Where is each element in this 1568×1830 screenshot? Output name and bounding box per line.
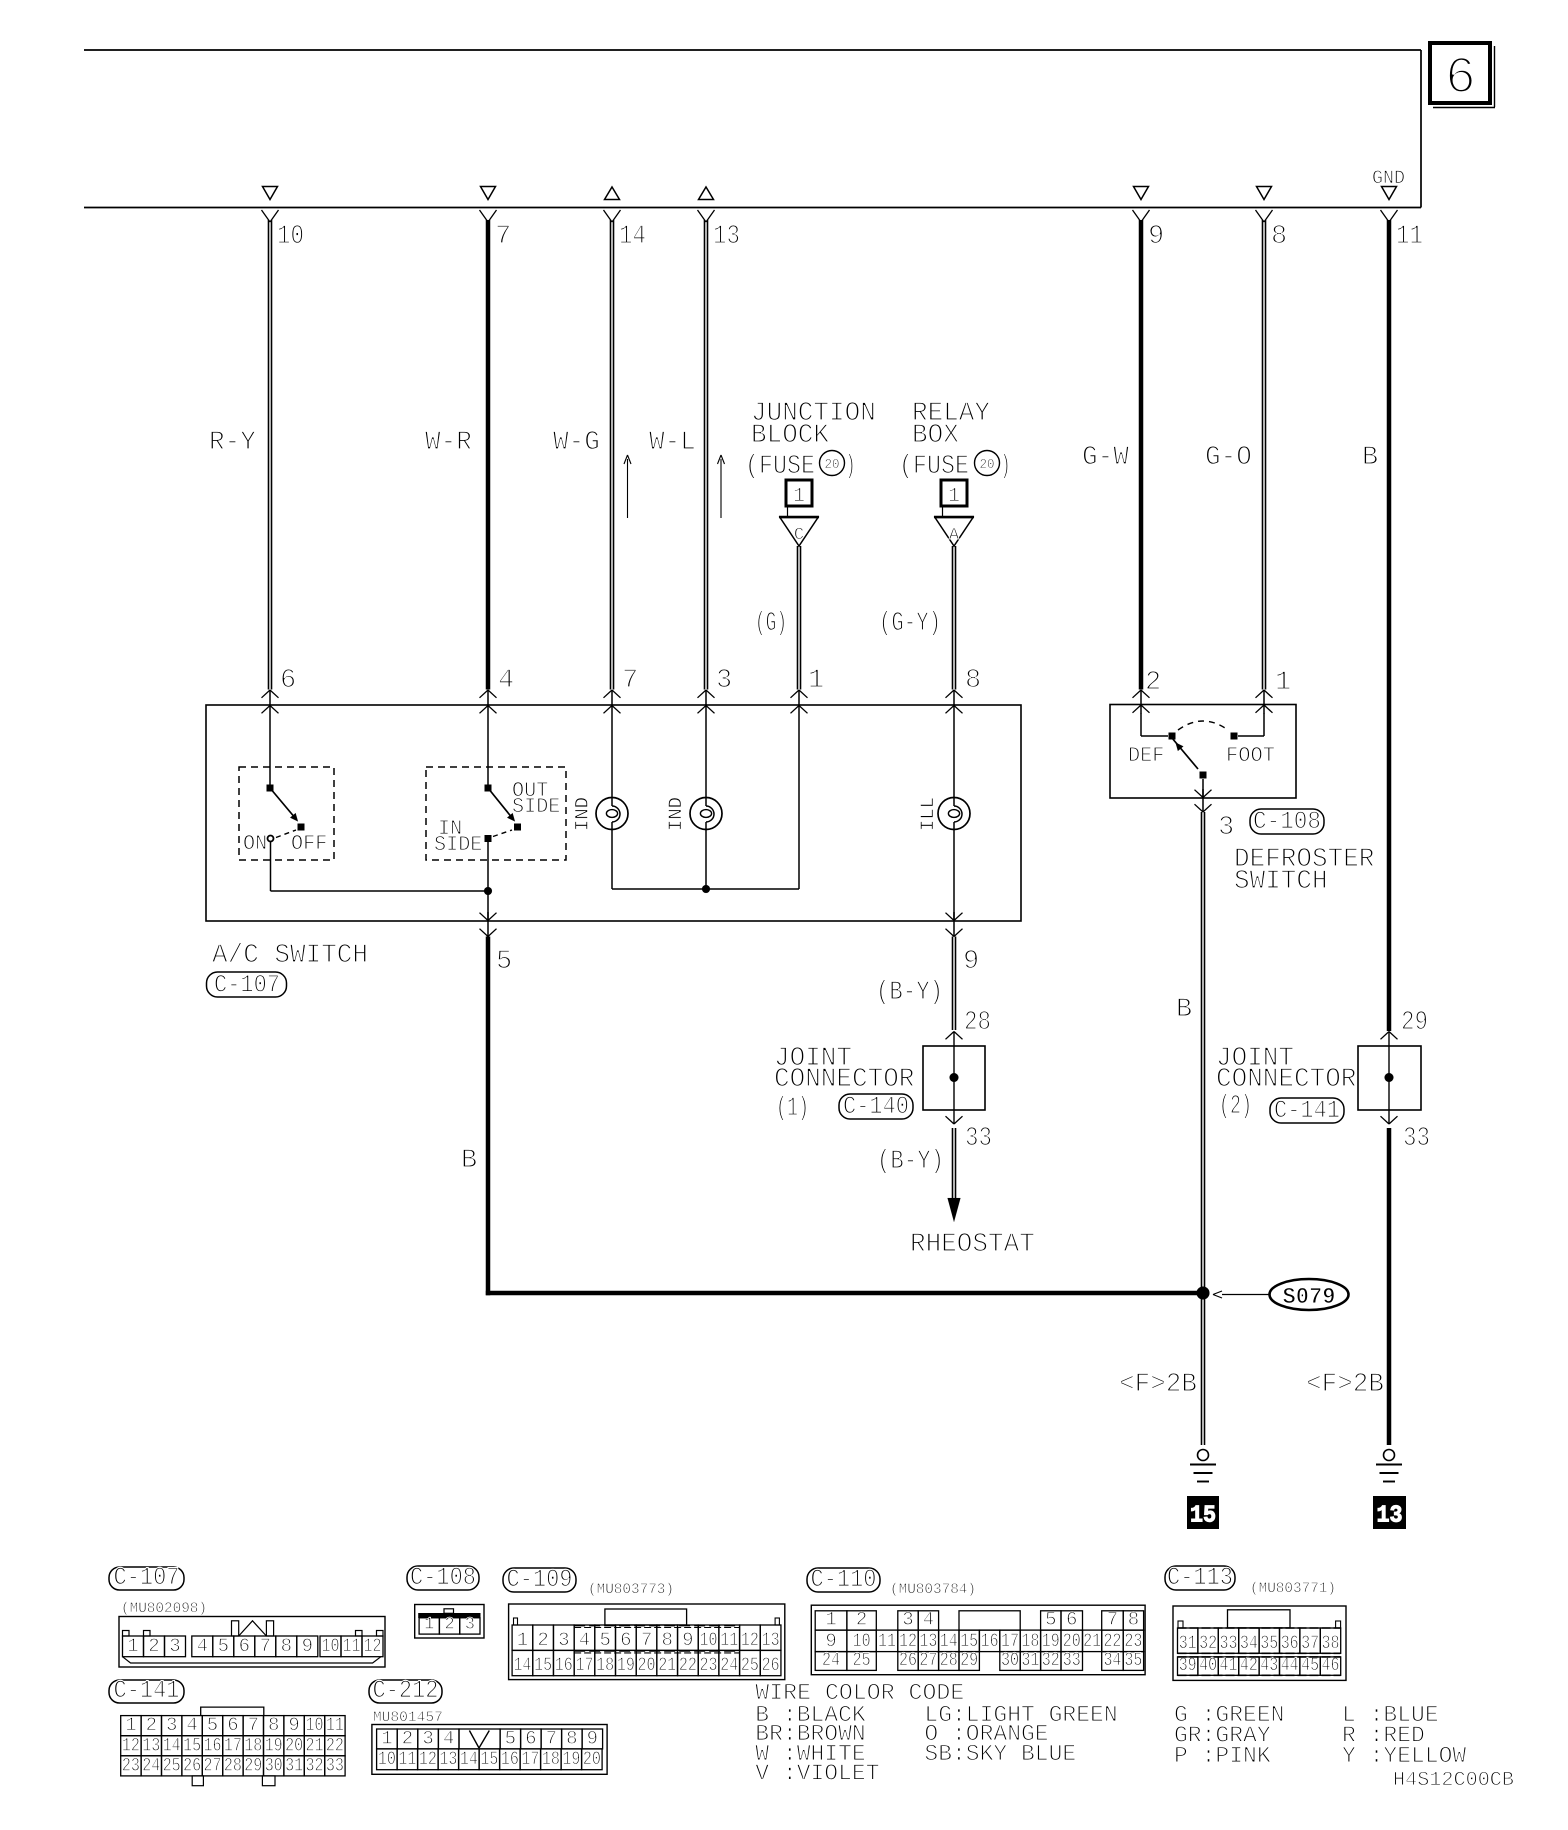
svg-text:MU801457: MU801457 — [373, 1710, 443, 1726]
svg-text:19: 19 — [617, 1654, 635, 1676]
svg-text:9: 9 — [302, 1635, 313, 1657]
svg-text:12: 12 — [122, 1734, 140, 1756]
svg-text:6: 6 — [1066, 1609, 1077, 1631]
svg-text:11: 11 — [398, 1748, 416, 1770]
svg-text:B: B — [1362, 443, 1378, 473]
svg-text:ILL: ILL — [917, 797, 939, 831]
svg-text:24: 24 — [142, 1754, 160, 1776]
svg-text:2: 2 — [856, 1609, 867, 1631]
svg-text:26: 26 — [762, 1654, 780, 1676]
svg-text:15: 15 — [534, 1654, 552, 1676]
svg-text:14: 14 — [163, 1734, 181, 1756]
svg-text:26: 26 — [183, 1754, 201, 1776]
svg-text:IND: IND — [665, 797, 687, 831]
svg-text:14: 14 — [513, 1654, 531, 1676]
svg-text:31: 31 — [285, 1754, 303, 1776]
svg-text:16: 16 — [204, 1734, 222, 1756]
svg-text:1: 1 — [517, 1629, 528, 1651]
svg-text:24: 24 — [822, 1649, 840, 1671]
svg-text:35: 35 — [1124, 1649, 1142, 1671]
svg-text:10: 10 — [322, 1635, 340, 1657]
svg-text:2: 2 — [148, 1635, 159, 1657]
svg-text:(B-Y): (B-Y) — [877, 1147, 944, 1177]
svg-text:GND: GND — [1372, 167, 1405, 189]
svg-text:<F>2B: <F>2B — [1119, 1370, 1197, 1400]
svg-text:10: 10 — [306, 1714, 324, 1736]
svg-text:S079: S079 — [1283, 1284, 1336, 1310]
svg-text:<F>2B: <F>2B — [1306, 1370, 1384, 1400]
svg-text:20: 20 — [825, 458, 840, 473]
svg-text:C-113: C-113 — [1167, 1563, 1233, 1592]
svg-text:32: 32 — [306, 1754, 324, 1776]
svg-text:9: 9 — [1148, 222, 1164, 252]
svg-text:37: 37 — [1301, 1632, 1319, 1654]
svg-text:2: 2 — [402, 1727, 413, 1749]
svg-text:(1): (1) — [776, 1094, 809, 1124]
svg-text:33: 33 — [326, 1754, 344, 1776]
svg-text:6: 6 — [239, 1635, 250, 1657]
svg-text:11: 11 — [343, 1635, 361, 1657]
svg-text:C-107: C-107 — [114, 1563, 180, 1592]
svg-text:25: 25 — [163, 1754, 181, 1776]
svg-text:30: 30 — [1001, 1649, 1019, 1671]
svg-text:26: 26 — [899, 1649, 917, 1671]
svg-text:A/C SWITCH: A/C SWITCH — [212, 941, 368, 971]
svg-text:4: 4 — [498, 666, 514, 696]
svg-text:W-R: W-R — [425, 428, 472, 458]
svg-text:12: 12 — [419, 1748, 437, 1770]
svg-text:SWITCH: SWITCH — [1234, 867, 1328, 897]
svg-text:(MU803771): (MU803771) — [1250, 1581, 1336, 1597]
svg-text:DEF: DEF — [1128, 745, 1164, 768]
svg-text:BLOCK: BLOCK — [751, 421, 830, 451]
svg-text:C-107: C-107 — [214, 971, 280, 1000]
svg-text:36: 36 — [1281, 1632, 1299, 1654]
svg-text:4: 4 — [579, 1629, 590, 1651]
svg-text:24: 24 — [720, 1654, 738, 1676]
svg-text:8: 8 — [268, 1714, 279, 1736]
svg-text:3: 3 — [558, 1629, 569, 1651]
svg-text:15: 15 — [183, 1734, 201, 1756]
svg-text:C-109: C-109 — [507, 1565, 573, 1594]
svg-text:1: 1 — [127, 1635, 138, 1657]
svg-text:17: 17 — [575, 1654, 593, 1676]
svg-text:2: 2 — [146, 1714, 157, 1736]
svg-text:3: 3 — [716, 666, 732, 696]
svg-text:21: 21 — [306, 1734, 324, 1756]
svg-text:G-W: G-W — [1082, 443, 1130, 473]
svg-text:SIDE: SIDE — [434, 834, 482, 857]
svg-text:21: 21 — [658, 1654, 676, 1676]
svg-text:25: 25 — [853, 1649, 871, 1671]
svg-text:2: 2 — [537, 1629, 548, 1651]
svg-text:(2): (2) — [1219, 1092, 1252, 1122]
svg-text:Y :YELLOW: Y :YELLOW — [1342, 1743, 1466, 1769]
svg-text:34: 34 — [1103, 1649, 1121, 1671]
svg-text:V :VIOLET: V :VIOLET — [755, 1761, 879, 1787]
svg-text:17: 17 — [224, 1734, 242, 1756]
svg-text:11: 11 — [878, 1630, 896, 1652]
svg-text:1: 1 — [125, 1714, 136, 1736]
svg-text:18: 18 — [542, 1748, 560, 1770]
svg-text:C-141: C-141 — [114, 1676, 180, 1705]
svg-text:9: 9 — [682, 1629, 693, 1651]
svg-text:1: 1 — [424, 1616, 434, 1635]
svg-text:20: 20 — [285, 1734, 303, 1756]
svg-text:16: 16 — [981, 1630, 999, 1652]
svg-text:6: 6 — [1445, 49, 1476, 108]
svg-text:16: 16 — [501, 1748, 519, 1770]
svg-text:8: 8 — [566, 1727, 577, 1749]
svg-text:8: 8 — [965, 666, 981, 696]
svg-text:8: 8 — [1271, 222, 1287, 252]
svg-text:11: 11 — [326, 1714, 344, 1736]
svg-text:33: 33 — [965, 1124, 992, 1154]
svg-text:G-O: G-O — [1205, 443, 1252, 473]
svg-text:20: 20 — [583, 1748, 601, 1770]
svg-text:8: 8 — [661, 1629, 672, 1651]
svg-text:32: 32 — [1042, 1649, 1060, 1671]
svg-text:18: 18 — [244, 1734, 262, 1756]
svg-text:22: 22 — [326, 1734, 344, 1756]
svg-text:OFF: OFF — [291, 833, 327, 856]
svg-text:15: 15 — [480, 1748, 498, 1770]
svg-text:CONNECTOR: CONNECTOR — [1216, 1065, 1356, 1095]
svg-text:32: 32 — [1199, 1632, 1217, 1654]
svg-text:W-G: W-G — [553, 428, 600, 458]
svg-text:R-Y: R-Y — [209, 428, 256, 458]
svg-text:1: 1 — [381, 1727, 392, 1749]
svg-text:19: 19 — [265, 1734, 283, 1756]
svg-text:B: B — [461, 1146, 477, 1176]
svg-text:29: 29 — [1401, 1008, 1428, 1038]
svg-text:3: 3 — [169, 1635, 180, 1657]
svg-text:10: 10 — [700, 1629, 718, 1651]
svg-text:4: 4 — [923, 1609, 934, 1631]
svg-text:19: 19 — [562, 1748, 580, 1770]
svg-text:(G): (G) — [755, 609, 787, 639]
svg-text:5: 5 — [599, 1629, 610, 1651]
svg-text:10: 10 — [277, 222, 304, 252]
svg-text:A: A — [949, 526, 960, 545]
svg-text:1: 1 — [793, 485, 805, 508]
svg-text:7: 7 — [495, 222, 511, 252]
svg-text:9: 9 — [288, 1714, 299, 1736]
svg-text:28: 28 — [224, 1754, 242, 1776]
svg-text:C: C — [794, 526, 804, 545]
svg-text:14: 14 — [619, 222, 646, 252]
svg-text:(FUSE: (FUSE — [899, 452, 969, 482]
svg-text:C-108: C-108 — [410, 1563, 476, 1592]
svg-text:12: 12 — [741, 1629, 759, 1651]
svg-text:16: 16 — [555, 1654, 573, 1676]
svg-text:3: 3 — [902, 1609, 913, 1631]
svg-text:7: 7 — [622, 666, 638, 696]
svg-text:P :PINK: P :PINK — [1174, 1743, 1271, 1769]
svg-text:1: 1 — [808, 666, 824, 696]
svg-text:13: 13 — [1377, 1503, 1403, 1530]
svg-text:31: 31 — [1021, 1649, 1039, 1671]
svg-text:7: 7 — [248, 1714, 259, 1736]
svg-text:H4S12C00CB: H4S12C00CB — [1393, 1769, 1514, 1792]
svg-text:6: 6 — [620, 1629, 631, 1651]
svg-text:21: 21 — [1083, 1630, 1101, 1652]
svg-text:13: 13 — [762, 1629, 780, 1651]
svg-text:5: 5 — [1045, 1609, 1056, 1631]
svg-text:20: 20 — [980, 458, 995, 473]
svg-text:28: 28 — [964, 1008, 991, 1038]
svg-text:(FUSE: (FUSE — [745, 452, 815, 482]
svg-text:2: 2 — [444, 1616, 454, 1635]
svg-text:4: 4 — [443, 1727, 454, 1749]
svg-text:29: 29 — [960, 1649, 978, 1671]
svg-text:14: 14 — [460, 1748, 478, 1770]
svg-text:5: 5 — [505, 1727, 516, 1749]
svg-text:SB:SKY BLUE: SB:SKY BLUE — [924, 1741, 1076, 1767]
svg-text:13: 13 — [713, 222, 740, 252]
svg-text:11: 11 — [1396, 222, 1423, 252]
svg-text:20: 20 — [638, 1654, 656, 1676]
svg-text:35: 35 — [1260, 1632, 1278, 1654]
svg-text:29: 29 — [244, 1754, 262, 1776]
svg-text:ON: ON — [243, 833, 267, 856]
svg-text:(B-Y): (B-Y) — [876, 978, 943, 1008]
svg-text:4: 4 — [197, 1635, 208, 1657]
svg-text:C-108: C-108 — [1253, 807, 1321, 836]
svg-text:7: 7 — [1107, 1609, 1118, 1631]
svg-text:13: 13 — [439, 1748, 457, 1770]
svg-text:1: 1 — [948, 485, 960, 508]
svg-text:3: 3 — [1218, 813, 1234, 843]
svg-text:(MU803773): (MU803773) — [588, 1582, 674, 1598]
svg-text:5: 5 — [218, 1635, 229, 1657]
svg-text:27: 27 — [204, 1754, 222, 1776]
svg-text:C-140: C-140 — [843, 1092, 909, 1121]
svg-text:1: 1 — [825, 1609, 836, 1631]
svg-text:1: 1 — [1275, 668, 1291, 698]
svg-text:): ) — [846, 452, 856, 482]
svg-text:33: 33 — [1403, 1124, 1430, 1154]
svg-text:10: 10 — [378, 1748, 396, 1770]
svg-text:23: 23 — [700, 1654, 718, 1676]
svg-text:2: 2 — [1145, 668, 1161, 698]
svg-text:12: 12 — [364, 1635, 382, 1657]
svg-text:23: 23 — [122, 1754, 140, 1776]
svg-text:3: 3 — [465, 1616, 475, 1635]
svg-text:7: 7 — [641, 1629, 652, 1651]
svg-text:IND: IND — [572, 797, 594, 831]
svg-text:6: 6 — [280, 666, 296, 696]
svg-text:W-L: W-L — [649, 428, 696, 458]
svg-text:3: 3 — [422, 1727, 433, 1749]
svg-text:8: 8 — [1128, 1609, 1139, 1631]
svg-text:9: 9 — [963, 947, 979, 977]
svg-text:3: 3 — [166, 1714, 177, 1736]
svg-text:5: 5 — [207, 1714, 218, 1736]
svg-text:38: 38 — [1322, 1632, 1340, 1654]
svg-text:C-212: C-212 — [373, 1676, 439, 1705]
svg-text:C-141: C-141 — [1274, 1096, 1340, 1125]
svg-text:13: 13 — [142, 1734, 160, 1756]
svg-text:): ) — [1001, 452, 1011, 482]
svg-text:25: 25 — [741, 1654, 759, 1676]
svg-text:(MU803784): (MU803784) — [890, 1582, 976, 1598]
svg-text:18: 18 — [596, 1654, 614, 1676]
svg-text:34: 34 — [1240, 1632, 1258, 1654]
svg-text:(MU802098): (MU802098) — [121, 1601, 207, 1617]
svg-text:27: 27 — [919, 1649, 937, 1671]
svg-text:CONNECTOR: CONNECTOR — [774, 1065, 914, 1095]
svg-text:4: 4 — [186, 1714, 197, 1736]
svg-text:6: 6 — [525, 1727, 536, 1749]
svg-text:33: 33 — [1220, 1632, 1238, 1654]
svg-text:SIDE: SIDE — [512, 796, 560, 819]
svg-text:BOX: BOX — [912, 421, 959, 451]
svg-text:30: 30 — [265, 1754, 283, 1776]
svg-text:7: 7 — [260, 1635, 271, 1657]
svg-text:7: 7 — [546, 1727, 557, 1749]
svg-text:5: 5 — [496, 947, 512, 977]
svg-text:B: B — [1176, 995, 1192, 1025]
svg-text:RHEOSTAT: RHEOSTAT — [910, 1230, 1035, 1260]
svg-text:28: 28 — [940, 1649, 958, 1671]
svg-text:31: 31 — [1179, 1632, 1197, 1654]
svg-text:C-110: C-110 — [811, 1565, 877, 1594]
svg-text:11: 11 — [720, 1629, 738, 1651]
svg-text:FOOT: FOOT — [1226, 745, 1275, 768]
svg-text:15: 15 — [1190, 1503, 1216, 1530]
svg-text:6: 6 — [227, 1714, 238, 1736]
svg-text:22: 22 — [679, 1654, 697, 1676]
svg-text:33: 33 — [1063, 1649, 1081, 1671]
svg-text:(G-Y): (G-Y) — [879, 609, 941, 639]
svg-text:17: 17 — [521, 1748, 539, 1770]
svg-text:8: 8 — [281, 1635, 292, 1657]
svg-text:9: 9 — [587, 1727, 598, 1749]
